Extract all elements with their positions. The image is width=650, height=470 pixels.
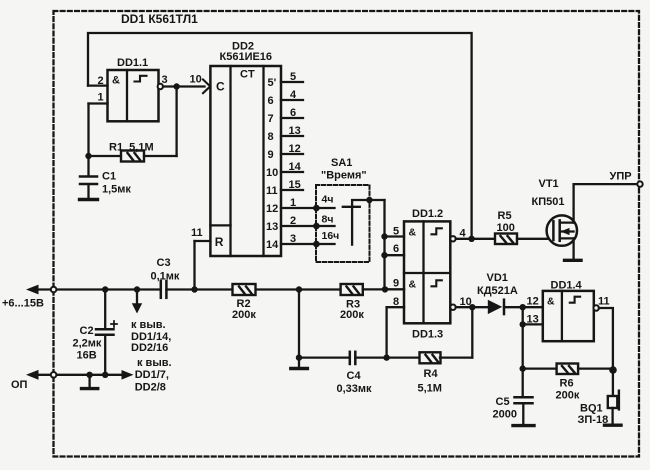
svg-text:6: 6 — [290, 107, 296, 119]
svg-text:DD2/16: DD2/16 — [131, 342, 168, 354]
svg-text:6: 6 — [268, 95, 274, 107]
pin 6 — [385, 243, 405, 255]
svg-text:R5: R5 — [498, 210, 512, 222]
svg-text:DD1.4: DD1.4 — [551, 280, 583, 292]
label R4 value — [418, 368, 442, 395]
svg-text:16В: 16В — [77, 350, 97, 362]
pin 4 output circle — [450, 228, 466, 242]
label k vyv DD1/7 DD2/8 — [135, 357, 172, 394]
resistor R3 — [341, 284, 404, 295]
resistor R5 — [495, 234, 553, 245]
svg-text:14: 14 — [289, 161, 302, 173]
wire C4 branch vertical — [298, 290, 300, 368]
svg-text:9: 9 — [393, 278, 399, 290]
svg-text:ЗП-18: ЗП-18 — [578, 414, 609, 426]
capacitor C2 electrolytic — [96, 290, 117, 375]
svg-text:13: 13 — [289, 125, 301, 137]
svg-text:13: 13 — [527, 313, 539, 325]
resistor R4 — [420, 307, 473, 363]
svg-text:200к: 200к — [556, 390, 580, 402]
wire rail left segment — [37, 288, 161, 290]
svg-text:R1 5,1М: R1 5,1М — [109, 142, 154, 154]
rail OP: left arrow — [26, 370, 39, 380]
svg-text:1,5мк: 1,5мк — [102, 184, 131, 196]
svg-text:1: 1 — [290, 197, 296, 209]
svg-text:CT: CT — [240, 69, 255, 81]
node rail/pin9 junction — [382, 286, 388, 292]
svg-text:0,1мк: 0,1мк — [151, 270, 180, 282]
buzzer BQ1 — [608, 370, 619, 424]
wire source to ground — [572, 238, 574, 259]
svg-text:11: 11 — [266, 185, 278, 197]
node C4 tee — [296, 354, 302, 360]
node pin6 — [381, 252, 387, 258]
svg-text:2: 2 — [290, 215, 296, 227]
wire pin12-13 tie vertical — [522, 307, 524, 368]
svg-text:SA1: SA1 — [331, 157, 352, 169]
pin 11 output circle — [594, 296, 610, 311]
ground at VT1 source — [565, 259, 582, 262]
svg-text:8: 8 — [268, 131, 274, 143]
counter DD2 — [210, 66, 281, 256]
svg-text:13: 13 — [266, 221, 278, 233]
wire pin4 to R5 — [456, 238, 495, 240]
node pin4 feedback junction — [468, 236, 474, 242]
label DD1.2 — [412, 208, 443, 220]
svg-text:16ч: 16ч — [322, 230, 340, 242]
label R3 value — [340, 299, 364, 322]
svg-text:DD2/8: DD2/8 — [135, 381, 166, 393]
label BQ1 type — [578, 403, 609, 427]
label DD2 type — [220, 41, 273, 64]
svg-text:C5: C5 — [496, 396, 510, 408]
label +6...15V — [2, 298, 44, 310]
svg-text:14: 14 — [266, 239, 279, 251]
svg-text:2000: 2000 — [493, 409, 517, 421]
pin 10 output circle — [450, 296, 471, 310]
node pin5 — [381, 233, 387, 239]
resistor R2 — [233, 284, 341, 295]
svg-text:0,33мк: 0,33мк — [337, 383, 373, 395]
node C2 bottom junction — [102, 372, 108, 378]
svg-text:C4: C4 — [347, 370, 362, 382]
switch SA1 dashed box — [316, 185, 370, 262]
label C3 value — [151, 257, 180, 282]
label C5 value — [493, 396, 517, 421]
label R2 value — [232, 298, 256, 321]
svg-text:2: 2 — [98, 75, 104, 87]
svg-text:4ч: 4ч — [322, 194, 334, 206]
node ground stub junction — [86, 372, 92, 378]
terminal circle on border (OP) — [51, 372, 57, 378]
svg-text:VT1: VT1 — [539, 178, 559, 190]
svg-text:"Время": "Время" — [321, 170, 367, 182]
svg-text:ОП: ОП — [11, 379, 28, 391]
node R6 left junction — [520, 365, 526, 371]
svg-text:8: 8 — [393, 296, 399, 308]
svg-text:DD1.3: DD1.3 — [412, 329, 443, 341]
svg-text:&: & — [547, 296, 555, 308]
label R6 value — [556, 378, 580, 402]
label DD1 type — [121, 12, 198, 26]
svg-text:&: & — [112, 74, 120, 86]
DD2 output stubs with pin numbers — [266, 71, 335, 251]
svg-text:100: 100 — [497, 222, 515, 234]
svg-text:C3: C3 — [157, 257, 171, 269]
svg-text:200к: 200к — [340, 309, 364, 321]
node switch common on border — [366, 197, 372, 203]
wire feedback: DD1.2 pin4 to DD1.1 pin2 — [88, 33, 472, 239]
op-gate DD1.2 / DD1.3 block — [404, 221, 450, 323]
capacitor C4 — [299, 352, 420, 364]
wire pin10 to VD1 anode — [456, 306, 489, 308]
clock arrow into C — [203, 80, 210, 94]
pin 10 label — [190, 73, 202, 85]
svg-text:BQ1: BQ1 — [580, 403, 603, 415]
node R1/C1 junction — [85, 153, 91, 159]
resistor R6 — [523, 364, 613, 375]
pin 11 R input wire — [191, 227, 210, 290]
svg-text:DD1.1: DD1.1 — [117, 57, 148, 69]
node power stub junction — [134, 286, 140, 292]
pin 5 — [385, 225, 405, 237]
svg-text:к выв.: к выв. — [131, 319, 166, 331]
power stub down arrow — [132, 290, 142, 314]
svg-text:R4: R4 — [424, 368, 439, 380]
pin 9 — [385, 278, 405, 290]
transistor VT1 MOSFET — [547, 215, 577, 245]
svg-text:1: 1 — [98, 91, 104, 103]
label DD1.1 — [117, 57, 148, 69]
label VD1 type — [477, 272, 518, 297]
svg-text:5,1М: 5,1М — [418, 383, 442, 395]
ground at C4 branch — [291, 367, 308, 370]
terminal UPR circle — [637, 181, 642, 186]
label DD1.3 — [412, 329, 443, 341]
svg-text:C: C — [216, 80, 225, 94]
svg-text:&: & — [409, 227, 417, 239]
ground at OP rail — [82, 375, 98, 389]
svg-text:К561ИЕ16: К561ИЕ16 — [220, 51, 273, 63]
switch arm — [343, 200, 385, 245]
svg-text:200к: 200к — [232, 309, 256, 321]
label OP — [11, 379, 28, 391]
wire OP rail — [37, 374, 123, 376]
svg-text:12: 12 — [289, 143, 301, 155]
svg-text:6: 6 — [393, 243, 399, 255]
node pin11 junction — [191, 286, 197, 292]
capacitor C5 — [515, 369, 533, 425]
label R1 value — [109, 142, 154, 154]
svg-text:DD1 К561ТЛ1: DD1 К561ТЛ1 — [121, 12, 198, 26]
op-gate DD1.4 — [543, 291, 594, 341]
svg-text:7: 7 — [268, 113, 274, 125]
svg-text:15: 15 — [289, 179, 301, 191]
label DD1.4 — [551, 280, 583, 292]
rail +6..15V: left arrow — [26, 285, 39, 295]
node C4/ground junction on rail — [296, 286, 302, 292]
svg-text:DD1.2: DD1.2 — [412, 208, 443, 220]
diode VD1 — [488, 300, 543, 314]
svg-text:C1: C1 — [102, 171, 116, 183]
ground at BQ1 — [605, 424, 622, 427]
pin 8 — [387, 296, 404, 358]
pin 3 output inversion circle — [158, 74, 168, 89]
svg-text:8ч: 8ч — [322, 214, 334, 226]
svg-text:12: 12 — [266, 203, 278, 215]
labels 4ч 8ч 16ч — [322, 194, 340, 243]
svg-text:VD1: VD1 — [487, 272, 508, 284]
right arrow to k vyv — [122, 370, 134, 380]
ground at C5 — [513, 424, 534, 427]
svg-text:5': 5' — [268, 77, 277, 89]
ground at C1 — [80, 198, 98, 201]
svg-text:C2: C2 — [80, 325, 94, 337]
svg-text:10: 10 — [266, 167, 278, 179]
terminal circle on border (top rail) — [51, 287, 57, 293]
wire rail mid segment — [166, 288, 232, 290]
svg-text:КД521А: КД521А — [477, 285, 518, 297]
svg-text:КП501: КП501 — [532, 196, 565, 208]
svg-text:12: 12 — [527, 295, 539, 307]
node pin13 junction — [520, 321, 526, 327]
svg-text:10: 10 — [190, 73, 202, 85]
node pin3/R1 junction — [173, 83, 179, 89]
svg-text:11: 11 — [191, 227, 203, 239]
svg-text:2,2мк: 2,2мк — [73, 338, 102, 350]
svg-text:к выв.: к выв. — [137, 357, 172, 369]
svg-text:&: & — [409, 278, 417, 290]
label C4 value — [337, 370, 373, 395]
svg-text:3: 3 — [162, 74, 168, 86]
label C1 value — [102, 171, 131, 196]
svg-text:5: 5 — [393, 225, 399, 237]
svg-text:9: 9 — [268, 149, 274, 161]
label C2 value — [73, 325, 102, 362]
label UPR — [610, 171, 632, 183]
svg-text:3: 3 — [290, 233, 296, 245]
SA1 contact dots — [313, 205, 320, 212]
node C2 top junction — [102, 286, 108, 292]
label SA1 — [321, 157, 367, 182]
label k vyv DD1/14 DD2/16 — [131, 319, 171, 354]
pin 13 wire — [523, 313, 543, 325]
pin 1 — [89, 91, 108, 156]
svg-text:5: 5 — [290, 71, 296, 83]
svg-text:УПР: УПР — [610, 171, 632, 183]
svg-text:R6: R6 — [560, 378, 574, 390]
capacitor C1 — [80, 156, 97, 199]
svg-text:4: 4 — [290, 89, 297, 101]
node R6/BQ1/pin11 junction — [609, 366, 617, 374]
wire DD1.1 out to DD2 C input — [163, 85, 205, 87]
svg-text:+6...15В: +6...15В — [2, 298, 44, 310]
label R5 value — [497, 210, 515, 234]
capacitor C3 — [161, 281, 167, 298]
svg-text:R: R — [215, 235, 224, 249]
wire pin11 down to BQ1 node — [599, 308, 613, 371]
resistor R1 — [89, 87, 177, 162]
svg-text:11: 11 — [598, 296, 610, 308]
op-gate DD1.1 — [108, 70, 159, 121]
pin 12 label — [527, 295, 539, 307]
pin 2 — [88, 75, 108, 87]
svg-text:DD1/7,: DD1/7, — [135, 369, 169, 381]
wire drain to UPR terminal — [574, 184, 638, 223]
label VT1 type — [532, 178, 565, 208]
node VD1/DD1.4 pin12 junction — [520, 304, 526, 310]
node pin8/C4/R4 junction — [383, 354, 389, 360]
wire common vertical to DD1.2 inputs — [383, 200, 385, 289]
node pin10/R4 junction — [469, 304, 475, 310]
